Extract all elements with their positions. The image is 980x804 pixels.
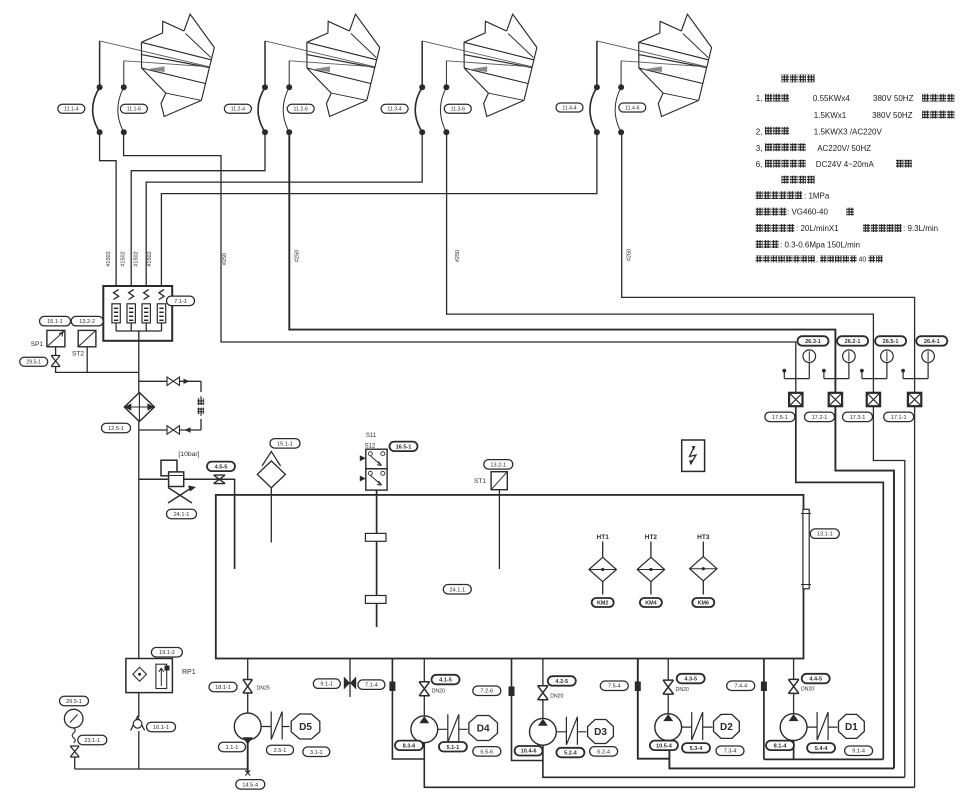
needle valve bbox=[70, 746, 79, 757]
svg-text:: VG460-40: : VG460-40 bbox=[787, 208, 828, 217]
pressure gauge group at riser x=914.6 bbox=[916, 336, 947, 346]
wire tank return inside bbox=[234, 495, 236, 569]
pump P1 bbox=[780, 714, 807, 741]
sensor ST2 bbox=[78, 330, 96, 346]
pump P2 bbox=[655, 714, 682, 741]
svg-text:11.1-4: 11.1-4 bbox=[64, 107, 78, 113]
wire D5 suction stub bbox=[247, 740, 249, 773]
svg-text:7.4-4: 7.4-4 bbox=[734, 684, 747, 690]
pressure transmitter bbox=[829, 393, 842, 406]
filter F1 bbox=[257, 461, 285, 488]
svg-text:KM6: KM6 bbox=[698, 600, 709, 606]
wire riser1 down-leg bbox=[796, 407, 884, 760]
svg-text:0.55KWx4: 0.55KWx4 bbox=[813, 94, 850, 103]
label 5.1-1 bbox=[439, 742, 467, 752]
shutoff valve above pump D4 bbox=[423, 659, 425, 682]
svg-text:3,: 3, bbox=[756, 144, 763, 153]
svg-text:6.5-6: 6.5-6 bbox=[480, 749, 493, 755]
svg-text:24.1.1: 24.1.1 bbox=[450, 587, 466, 593]
svg-text:D5: D5 bbox=[299, 722, 312, 733]
wire riser4 down-leg bbox=[914, 407, 916, 788]
wire cooler3 return to riser 3 bbox=[447, 132, 874, 392]
svg-text:4.1-5: 4.1-5 bbox=[439, 678, 452, 684]
svg-text:40: 40 bbox=[859, 257, 867, 264]
label 8.1-4 bbox=[766, 741, 794, 751]
check valve top bbox=[167, 377, 180, 386]
label ST2 capsule bbox=[71, 316, 103, 326]
svg-text:: 9.3L/min: : 9.3L/min bbox=[903, 224, 938, 233]
valve under SP1 bbox=[51, 356, 60, 367]
wire cooler4 return to riser 4 bbox=[622, 132, 915, 392]
coupling bbox=[682, 712, 713, 740]
svg-text:D2: D2 bbox=[720, 722, 733, 733]
label heater contactor KM2 bbox=[592, 598, 614, 607]
svg-text:: 1MPa: : 1MPa bbox=[804, 191, 830, 200]
svg-text:13.2-1: 13.2-1 bbox=[490, 462, 506, 468]
pump P3 bbox=[530, 718, 557, 745]
shutoff valve 4.5-5 bbox=[214, 475, 226, 484]
motor D1 bbox=[839, 714, 865, 738]
motor D3 bbox=[588, 720, 614, 744]
svg-text:[10bar]: [10bar] bbox=[178, 451, 199, 458]
svg-text:7.1-1: 7.1-1 bbox=[174, 299, 187, 305]
label valve capsule bbox=[20, 357, 48, 366]
svg-text:17.3-1: 17.3-1 bbox=[850, 415, 866, 421]
svg-text:4.5-5: 4.5-5 bbox=[215, 464, 228, 470]
cooler K2 bbox=[258, 14, 380, 135]
svg-text:5.4-4: 5.4-4 bbox=[815, 746, 829, 752]
svg-text:7.2-6: 7.2-6 bbox=[480, 689, 493, 695]
svg-text:SP1: SP1 bbox=[31, 341, 44, 348]
svg-text:#1502: #1502 bbox=[120, 251, 126, 266]
svg-text:6.2-4: 6.2-4 bbox=[597, 749, 610, 755]
line size marker bbox=[761, 682, 767, 692]
svg-text:8.1-4: 8.1-4 bbox=[774, 743, 788, 749]
pressure transmitter bbox=[908, 393, 921, 406]
svg-text:7.5-4: 7.5-4 bbox=[608, 684, 621, 690]
svg-text:6,: 6, bbox=[756, 160, 763, 169]
flow control valve at x=116.1 bbox=[114, 289, 119, 299]
svg-text:DN20: DN20 bbox=[801, 687, 814, 693]
svg-text:17.1-1: 17.1-1 bbox=[891, 415, 907, 421]
cooler K1 (air-cooled heat exchanger) bbox=[93, 14, 215, 135]
svg-text:#1502: #1502 bbox=[106, 251, 112, 266]
svg-text:1,: 1, bbox=[756, 94, 763, 103]
label 5.2-4 bbox=[556, 748, 584, 758]
wire bottom line to pump D2 (bold) bbox=[638, 659, 894, 769]
svg-text:ST2: ST2 bbox=[72, 351, 84, 358]
svg-text:17.2-1: 17.2-1 bbox=[812, 415, 828, 421]
svg-text:5.2-4: 5.2-4 bbox=[564, 751, 578, 757]
svg-text:D1: D1 bbox=[845, 722, 858, 733]
hose label 11.3-4 bbox=[381, 104, 408, 113]
svg-text:DN25: DN25 bbox=[257, 686, 270, 692]
svg-text:11.1-6: 11.1-6 bbox=[127, 107, 141, 113]
label 5.4-4 bbox=[807, 743, 835, 753]
manifold internal bus bbox=[116, 331, 161, 341]
svg-text:15.1-1: 15.1-1 bbox=[277, 441, 293, 447]
svg-text:DN20: DN20 bbox=[550, 694, 563, 700]
svg-text:13.1-1: 13.1-1 bbox=[817, 532, 833, 538]
svg-text:4.3-5: 4.3-5 bbox=[684, 677, 697, 683]
svg-text:: 20L/minX1: : 20L/minX1 bbox=[796, 224, 839, 233]
wire cooler4 supply to manifold bbox=[161, 132, 597, 287]
pressure transmitter bbox=[789, 393, 802, 406]
test point bbox=[822, 369, 826, 373]
svg-text:29.5-1: 29.5-1 bbox=[66, 699, 82, 705]
svg-text:29.5-1: 29.5-1 bbox=[26, 360, 41, 366]
svg-text:11.4-4: 11.4-4 bbox=[562, 105, 576, 111]
svg-text:DN20: DN20 bbox=[432, 689, 445, 695]
wire cooler1 return to riser 1 bbox=[124, 132, 796, 392]
svg-text:26.3-1: 26.3-1 bbox=[805, 339, 821, 345]
svg-text:380V 50HZ: 380V 50HZ bbox=[873, 94, 914, 103]
svg-text:380V 50HZ: 380V 50HZ bbox=[872, 111, 913, 120]
pressure transmitter bbox=[867, 393, 880, 406]
shutoff valve above pump D3 bbox=[542, 659, 544, 686]
flow control valve at x=146.2 bbox=[144, 289, 149, 299]
wire left main supply line bbox=[138, 341, 140, 769]
line size marker bbox=[635, 682, 641, 692]
svg-text:,: , bbox=[816, 257, 818, 264]
pressure gauge PG bbox=[60, 696, 89, 706]
pump P4 bbox=[411, 716, 438, 743]
label 6.2-4 bbox=[590, 747, 618, 757]
hose label 11.4-4 bbox=[556, 103, 583, 112]
svg-text:4.2-5: 4.2-5 bbox=[555, 679, 568, 685]
svg-text:11.3-4: 11.3-4 bbox=[387, 107, 401, 113]
svg-text:S11: S11 bbox=[366, 433, 377, 439]
coupling bbox=[438, 714, 468, 742]
test point bbox=[782, 369, 786, 373]
sensor SP1 bbox=[47, 330, 65, 346]
hose label 11.2-4 bbox=[224, 104, 251, 113]
shutoff valve above pump D1 bbox=[793, 659, 795, 680]
flow control valve at x=161.5 bbox=[159, 289, 164, 299]
label heater contactor KM4 bbox=[640, 598, 662, 607]
svg-text:1.1-1: 1.1-1 bbox=[226, 745, 239, 751]
svg-text:11.4-6: 11.4-6 bbox=[625, 105, 639, 111]
heat exchanger (water cooler) bbox=[124, 393, 154, 422]
level switch stem with floats bbox=[376, 490, 378, 627]
svg-text:DC24V 4~20mA: DC24V 4~20mA bbox=[816, 160, 875, 169]
spec text block bbox=[782, 75, 790, 83]
filter unit RP1 bbox=[151, 648, 182, 658]
svg-text:#250: #250 bbox=[627, 249, 633, 261]
hose label 11.4-6 bbox=[619, 103, 646, 112]
svg-text:24.1-1: 24.1-1 bbox=[174, 512, 190, 518]
manifold block with 4 flow valves bbox=[103, 286, 172, 341]
svg-text:D3: D3 bbox=[594, 727, 607, 738]
pressure reducing valve bbox=[161, 460, 177, 476]
label 9.1-4 bbox=[845, 746, 873, 756]
hose label 11.3-6 bbox=[444, 104, 471, 113]
manifold label bbox=[167, 296, 195, 306]
svg-text:2,: 2, bbox=[756, 127, 763, 136]
svg-text:#250: #250 bbox=[222, 253, 228, 265]
svg-text:AC220V/ 50HZ: AC220V/ 50HZ bbox=[817, 144, 871, 153]
svg-text:26.4-1: 26.4-1 bbox=[924, 339, 940, 345]
svg-text:2.5-1: 2.5-1 bbox=[274, 748, 287, 754]
svg-text:#1502: #1502 bbox=[133, 251, 139, 266]
svg-text:1.5KWX3 /AC220V: 1.5KWX3 /AC220V bbox=[814, 127, 883, 136]
label cooler capsule bbox=[102, 423, 131, 433]
svg-text:#250: #250 bbox=[295, 250, 301, 262]
wire branch to tank return bbox=[139, 479, 235, 569]
svg-text:12.5-1: 12.5-1 bbox=[108, 426, 124, 432]
svg-text:15.1-1: 15.1-1 bbox=[47, 319, 63, 325]
flow control valve at x=131.2 bbox=[129, 289, 134, 299]
svg-text:: 0.3-0.6Mpa 150L/min: : 0.3-0.6Mpa 150L/min bbox=[780, 240, 860, 249]
svg-text:ST1: ST1 bbox=[474, 478, 486, 485]
hose label 11.2-6 bbox=[287, 104, 314, 113]
wire filter suction bbox=[270, 488, 272, 543]
wire cooler2 return to riser 2 (bold) bbox=[289, 132, 835, 392]
test point bbox=[860, 369, 864, 373]
svg-text:26.5-1: 26.5-1 bbox=[883, 339, 899, 345]
label 6.5-6 bbox=[473, 747, 501, 757]
wire cooling water bypass bbox=[139, 381, 201, 430]
check valve CV1 bbox=[131, 717, 145, 731]
hose label 11.1-6 bbox=[120, 104, 147, 113]
wire riser3 down-leg bbox=[873, 407, 904, 778]
test point bbox=[901, 369, 905, 373]
svg-text:3.1-1: 3.1-1 bbox=[310, 750, 323, 756]
svg-text:HT1: HT1 bbox=[597, 534, 610, 541]
cooler K3 bbox=[415, 14, 537, 135]
svg-text:4.4-5: 4.4-5 bbox=[809, 677, 822, 683]
svg-text:9.1-4: 9.1-4 bbox=[852, 749, 865, 755]
svg-text:5.1-1: 5.1-1 bbox=[447, 745, 460, 751]
svg-text:26.2-1: 26.2-1 bbox=[845, 339, 861, 345]
svg-text:14.5-4: 14.5-4 bbox=[242, 782, 258, 788]
cooler K4 bbox=[590, 14, 712, 135]
svg-text:8.3-6: 8.3-6 bbox=[403, 743, 416, 749]
label valve capsule bbox=[207, 462, 235, 472]
svg-text:DN20: DN20 bbox=[676, 687, 689, 693]
pump group D5 bbox=[247, 659, 249, 680]
label 8.3-6 bbox=[395, 741, 423, 751]
wire SP1/ST2 branch bbox=[56, 347, 139, 372]
line size marker bbox=[509, 687, 515, 697]
svg-text:17.5-1: 17.5-1 bbox=[772, 415, 788, 421]
svg-text:18.1-1: 18.1-1 bbox=[215, 685, 231, 691]
svg-text:11.3-6: 11.3-6 bbox=[451, 107, 465, 113]
check valve bottom bbox=[167, 426, 180, 435]
svg-text:10.5-4: 10.5-4 bbox=[656, 743, 673, 749]
wire bottom line to pump D3 bbox=[512, 659, 905, 778]
svg-text:1.5KWx1: 1.5KWx1 bbox=[814, 111, 847, 120]
motor D2 bbox=[714, 714, 740, 738]
svg-text:RP1: RP1 bbox=[182, 669, 196, 676]
label reducing valve capsule bbox=[167, 509, 197, 519]
pressure gauge group at riser x=835.4 bbox=[837, 336, 868, 346]
label 7.5-4 bbox=[600, 681, 628, 691]
svg-text:9.1-1: 9.1-1 bbox=[320, 682, 333, 688]
svg-text:23.1-1: 23.1-1 bbox=[84, 738, 100, 744]
shutoff valve above pump D2 bbox=[667, 659, 669, 681]
label 7.4-4 bbox=[727, 681, 755, 691]
svg-text:7.1-4: 7.1-4 bbox=[365, 683, 378, 689]
label 10.4-6 bbox=[515, 746, 543, 756]
svg-text:D4: D4 bbox=[477, 724, 490, 735]
svg-text:16.5-1: 16.5-1 bbox=[396, 444, 412, 450]
svg-text:19.1-2: 19.1-2 bbox=[159, 650, 175, 656]
pressure gauge group at riser x=873.4 bbox=[875, 336, 906, 346]
wire cooler1 supply to manifold bbox=[100, 132, 117, 287]
label tank capsule bbox=[443, 585, 471, 595]
svg-text:7.3-4: 7.3-4 bbox=[724, 749, 737, 755]
motor D5 bbox=[291, 714, 320, 739]
coupling bbox=[556, 717, 586, 745]
wire bottom line to pump D1 bbox=[764, 659, 883, 760]
wire cooler3 supply to manifold bbox=[146, 132, 422, 287]
level gauge bbox=[803, 509, 809, 589]
sensor ST1 bbox=[491, 472, 507, 490]
svg-text:10.4-6: 10.4-6 bbox=[521, 749, 537, 755]
wire cooler2 supply to manifold bbox=[131, 132, 265, 287]
motor D4 bbox=[469, 716, 498, 741]
svg-text:KM4: KM4 bbox=[645, 600, 656, 606]
electrical box bbox=[682, 440, 705, 471]
coupling bbox=[807, 712, 837, 740]
svg-text:13.2-2: 13.2-2 bbox=[79, 319, 95, 325]
tank (reservoir) bbox=[216, 495, 804, 659]
wire ST1 stem bbox=[498, 490, 500, 569]
label SV capsule bbox=[390, 442, 418, 452]
line size marker bbox=[389, 682, 395, 692]
label cooling water bbox=[198, 399, 205, 406]
label filter capsule bbox=[270, 439, 300, 449]
label heater contactor KM6 bbox=[692, 598, 714, 607]
drain valve (normally closed) bbox=[349, 659, 351, 698]
wire riser2 down-leg (bold) bbox=[835, 407, 894, 769]
label 10.5-4 bbox=[650, 741, 678, 751]
svg-text:5.3-4: 5.3-4 bbox=[690, 746, 704, 752]
wire suction header bbox=[75, 768, 248, 770]
label 5.3-4 bbox=[682, 743, 710, 753]
wire gauge wavy bbox=[72, 728, 75, 743]
wire to header bbox=[74, 757, 76, 769]
svg-text:HT3: HT3 bbox=[697, 534, 710, 541]
pressure gauge group at riser x=795.8 bbox=[798, 336, 829, 346]
label 7.3-4 bbox=[716, 746, 744, 756]
hose label 11.1-4 bbox=[58, 104, 85, 113]
svg-text:#1502: #1502 bbox=[147, 251, 153, 266]
label SP1 capsule bbox=[40, 316, 71, 326]
svg-text:KM2: KM2 bbox=[597, 600, 608, 606]
svg-text:11.2-4: 11.2-4 bbox=[231, 107, 245, 113]
svg-text:HT2: HT2 bbox=[645, 534, 658, 541]
svg-text:11.2-6: 11.2-6 bbox=[294, 107, 308, 113]
coupling D5 bbox=[261, 712, 289, 740]
label 7.2-6 bbox=[473, 686, 501, 696]
wire bottom line to pump D4 bbox=[392, 659, 914, 788]
svg-text:16.1-1: 16.1-1 bbox=[153, 725, 169, 731]
svg-text:#250: #250 bbox=[455, 250, 461, 262]
